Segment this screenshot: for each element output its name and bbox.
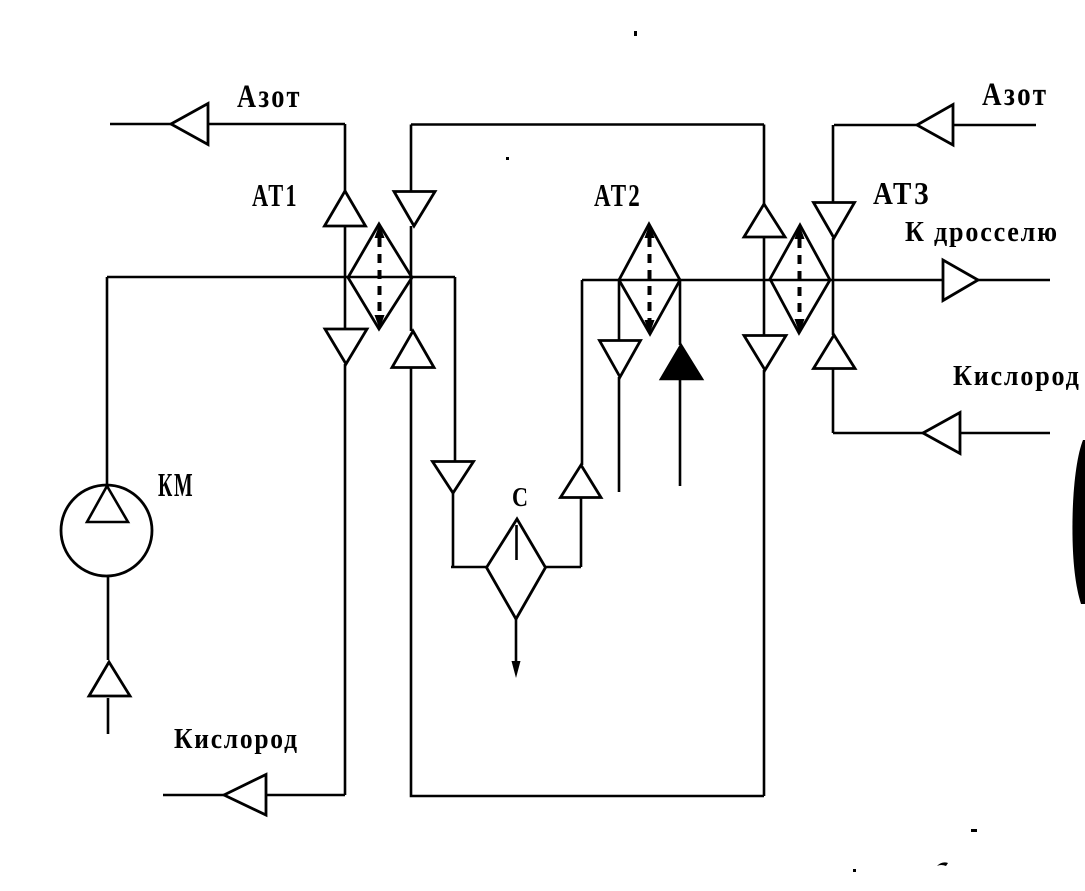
svg-text:Кислород: Кислород — [174, 723, 299, 755]
svg-text:Азот: Азот — [982, 75, 1049, 112]
wire main horizontal left — [107, 276, 455, 279]
wire AT1 to filter C down — [451, 277, 486, 567]
wire nitrogen outlet top-left — [110, 123, 345, 126]
wire loop rectangle — [411, 125, 764, 797]
compressor KM — [61, 485, 152, 576]
wire compressor riser — [106, 277, 109, 485]
drain arrow down from filter C — [515, 619, 518, 662]
valve arrow up, on line from filter C — [561, 465, 602, 498]
heat exchanger AT3 — [770, 225, 830, 333]
svg-text:АТЗ: АТЗ — [873, 176, 931, 211]
wire nitrogen inlet top-right — [833, 125, 1036, 202]
valve arrow up, AT1 right below — [392, 331, 434, 368]
flow arrow left, nitrogen inlet top-right — [917, 105, 953, 146]
valve arrow up, AT3 right below — [814, 335, 856, 369]
intake arrow up, below compressor — [89, 662, 130, 696]
wire oxygen inlet right — [833, 432, 1050, 435]
svg-text:Азот: Азот — [237, 78, 302, 114]
wire AT2 right drop — [679, 280, 682, 486]
scan page-edge blob right — [1072, 440, 1085, 604]
svg-text:АТ1: АТ1 — [252, 177, 299, 213]
wire AT1 left vertical — [344, 124, 347, 795]
valve arrow down, AT3 right above — [814, 203, 855, 239]
filter C (moisture separator) — [487, 519, 546, 619]
heat exchanger AT2 — [619, 224, 680, 334]
wire oxygen inlet bottom-left — [163, 794, 345, 797]
valve arrow up, AT1 left above — [325, 191, 366, 226]
scan speck dot bottom-left — [853, 869, 856, 872]
heat exchanger AT1 — [348, 224, 412, 329]
wire filter C to AT2 up — [546, 280, 582, 567]
valve arrow down, AT1 left below — [325, 329, 367, 364]
valve arrow down, on line to filter C — [433, 462, 474, 494]
svg-text:АТ2: АТ2 — [594, 178, 642, 214]
svg-text:К дросселю: К дросселю — [905, 215, 1059, 248]
wire main horizontal right — [582, 279, 1050, 282]
svg-text:КМ: КМ — [158, 467, 194, 505]
flow arrow right, to throttle outlet — [943, 260, 978, 301]
valve arrow down, AT3 left below — [744, 336, 786, 371]
scan speck dash bottom-right — [971, 829, 977, 832]
valve arrow up, AT3 left above — [744, 204, 785, 237]
flow arrow left, oxygen inlet bottom-left — [224, 775, 266, 816]
valve arrow down, AT2 left — [600, 341, 641, 378]
valve arrow down, AT1 right above — [394, 192, 435, 227]
svg-text:С: С — [512, 483, 528, 513]
svg-text:Кислород: Кислород — [953, 359, 1081, 392]
scan speck dot top — [634, 31, 637, 36]
wire AT2 left drop — [618, 280, 621, 492]
flow arrow left, nitrogen outlet top-left — [171, 104, 208, 145]
wire AT3 right vertical middle — [832, 238, 835, 433]
scan speck dot middle — [506, 157, 509, 160]
flow arrow left, oxygen inlet right — [923, 413, 960, 454]
scan squiggle bottom — [937, 862, 948, 866]
filled valve arrow up, AT2 right — [661, 345, 702, 379]
wire compressor outlet down — [107, 576, 110, 734]
